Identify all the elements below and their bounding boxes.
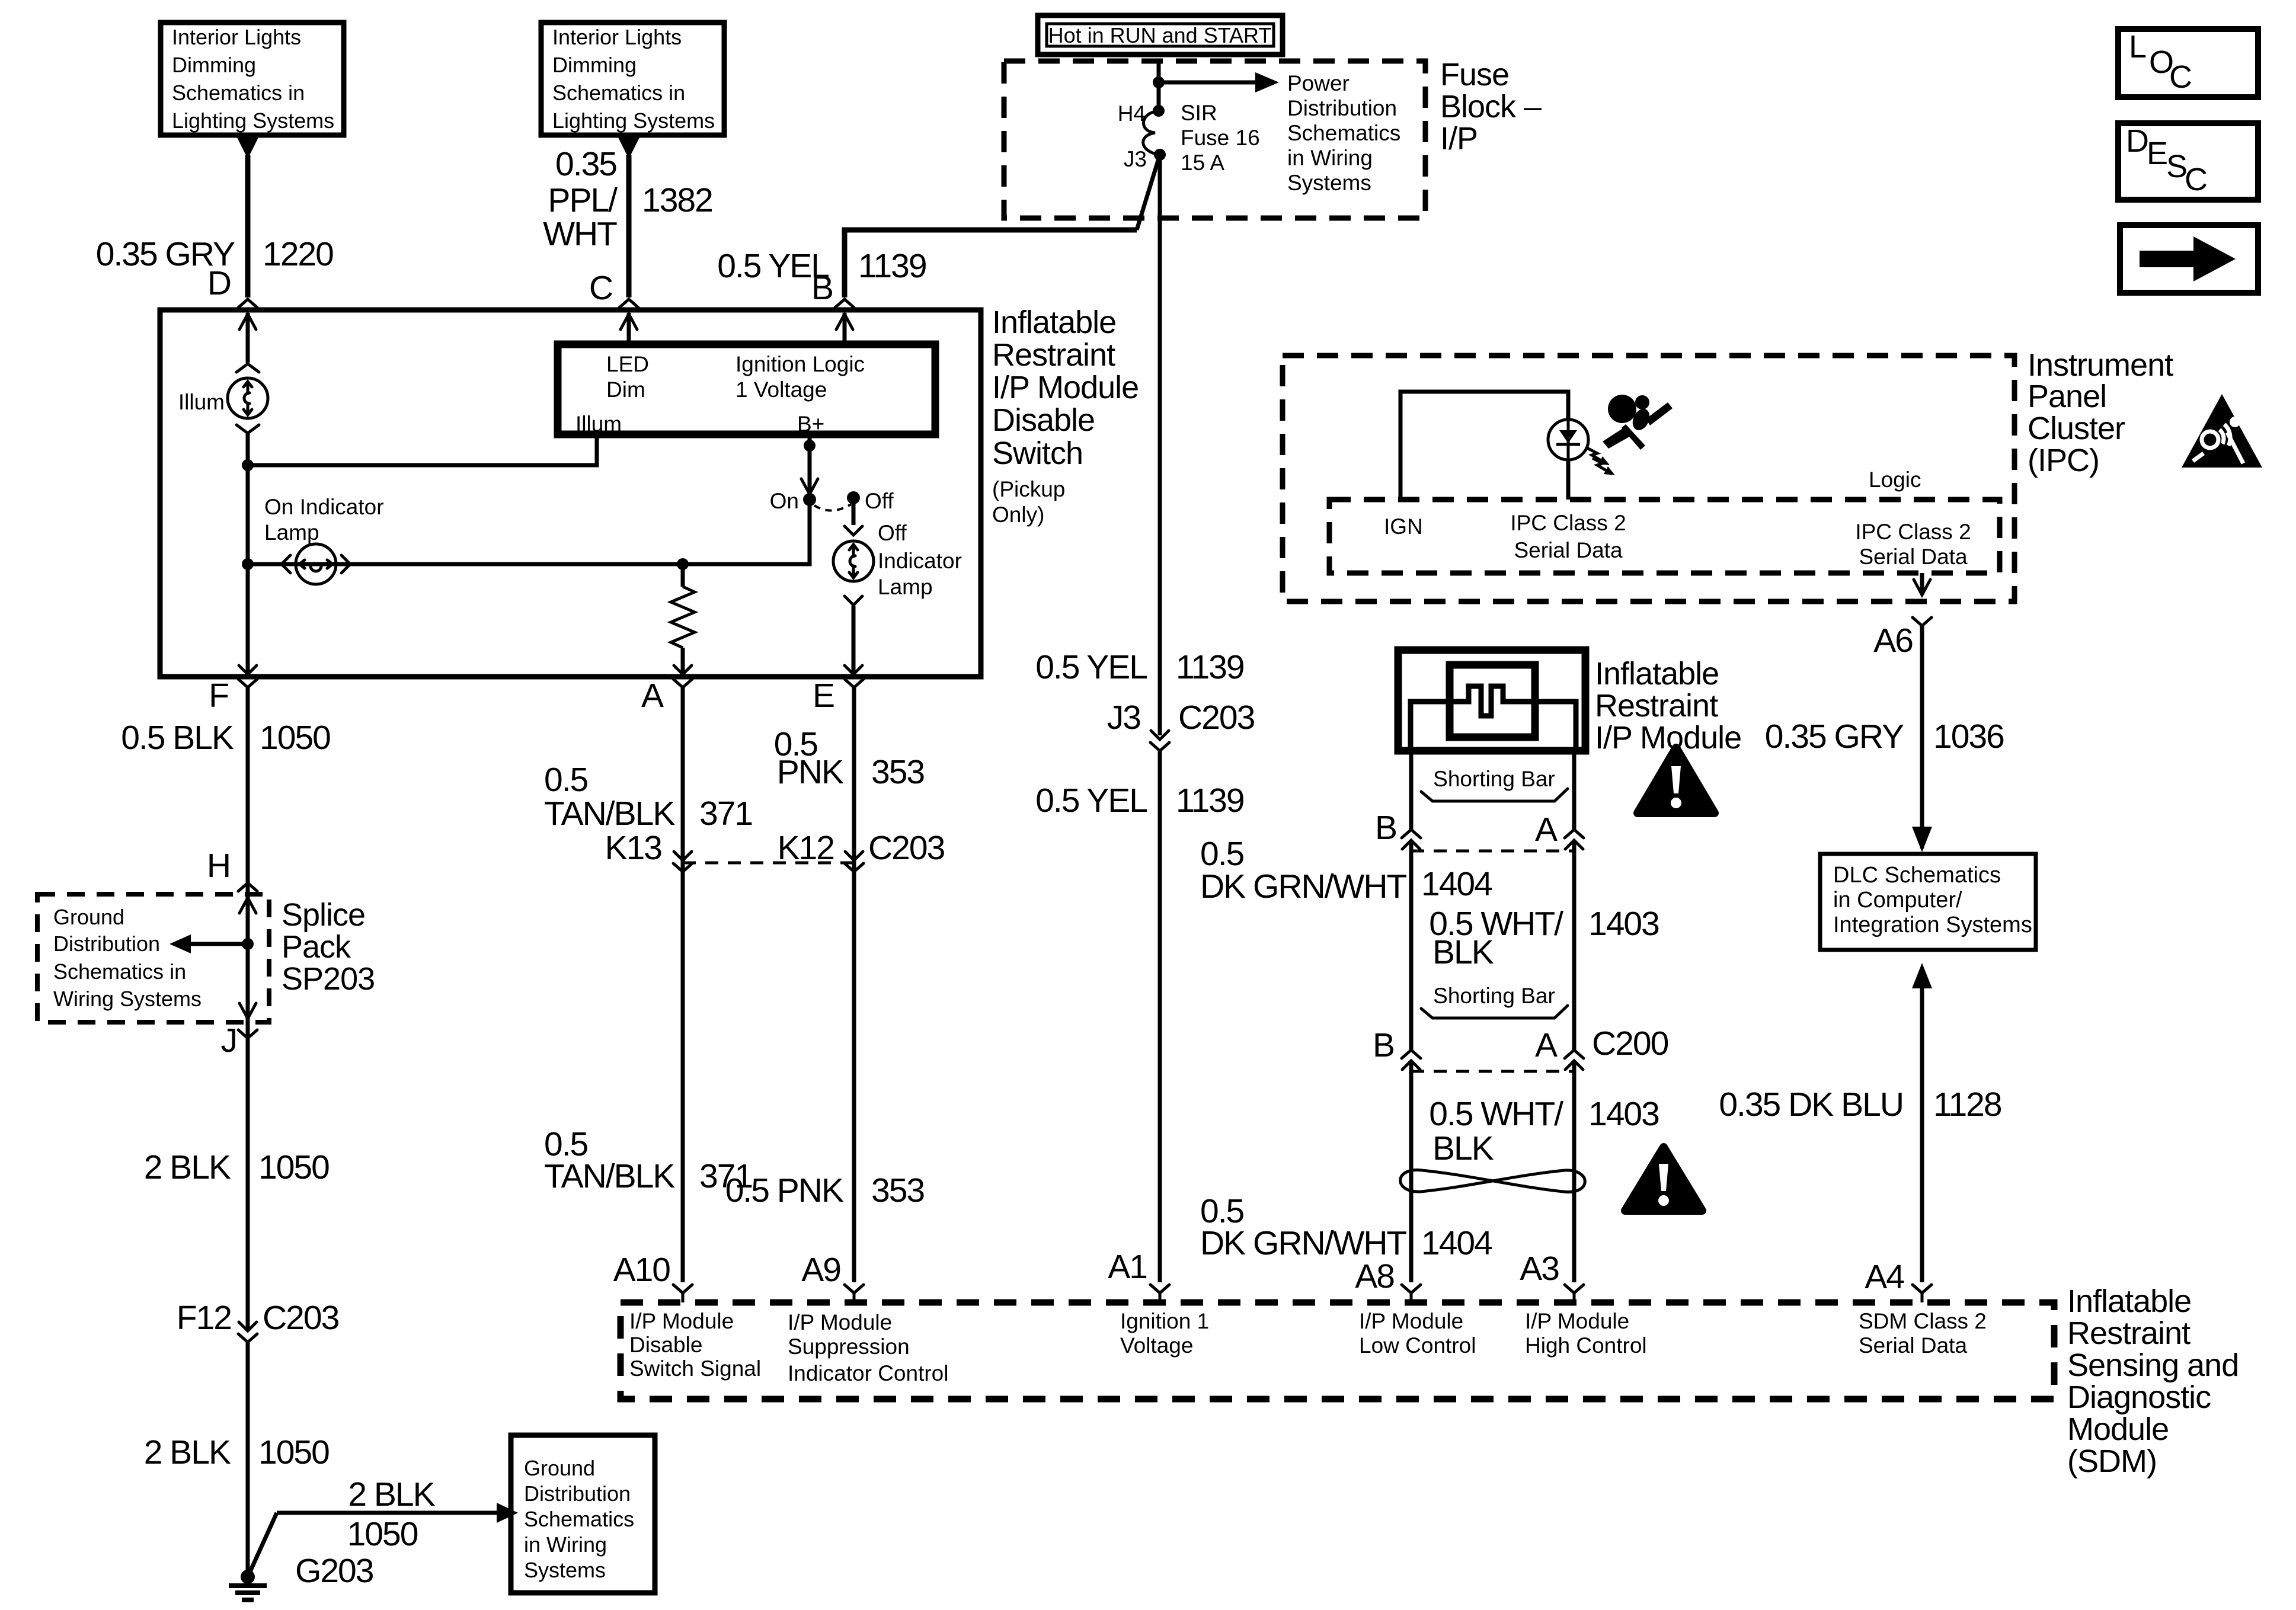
svg-text:Indicator: Indicator <box>878 549 962 573</box>
svg-text:Illum: Illum <box>178 390 225 414</box>
svg-text:Illum: Illum <box>575 412 622 436</box>
svg-text:Lighting Systems: Lighting Systems <box>172 108 334 133</box>
svg-text:Dimming: Dimming <box>552 53 637 77</box>
svg-text:Lamp: Lamp <box>264 520 319 545</box>
svg-text:I/P Module: I/P Module <box>1525 1309 1629 1333</box>
svg-text:DLC Schematics: DLC Schematics <box>1833 863 2001 888</box>
svg-text:0.35 DK BLU: 0.35 DK BLU <box>1719 1086 1903 1124</box>
svg-text:Instrument: Instrument <box>2028 347 2173 383</box>
svg-text:A6: A6 <box>1873 622 1913 660</box>
svg-text:A9: A9 <box>801 1251 840 1289</box>
svg-text:IGN: IGN <box>1384 514 1423 539</box>
svg-text:S: S <box>2166 149 2187 184</box>
svg-text:A10: A10 <box>613 1251 670 1289</box>
svg-text:Fuse 16: Fuse 16 <box>1181 126 1260 150</box>
svg-text:371: 371 <box>699 795 752 833</box>
svg-text:Shorting Bar: Shorting Bar <box>1433 767 1555 791</box>
svg-text:1403: 1403 <box>1588 905 1659 943</box>
svg-text:in Wiring: in Wiring <box>1287 146 1373 170</box>
svg-text:Distribution: Distribution <box>524 1481 631 1506</box>
svg-text:Hot in RUN and START: Hot in RUN and START <box>1048 23 1272 47</box>
svg-text:1050: 1050 <box>260 719 330 757</box>
svg-text:LED: LED <box>606 352 649 376</box>
svg-text:Off: Off <box>878 521 907 545</box>
svg-text:C: C <box>2185 162 2207 197</box>
svg-text:(Pickup: (Pickup <box>992 477 1065 501</box>
svg-text:Ignition 1: Ignition 1 <box>1120 1309 1209 1333</box>
svg-text:1050: 1050 <box>258 1433 329 1471</box>
svg-text:Schematics: Schematics <box>1287 121 1400 145</box>
svg-text:SDM Class 2: SDM Class 2 <box>1859 1309 1987 1333</box>
svg-text:IPC Class 2: IPC Class 2 <box>1510 511 1626 535</box>
svg-text:Lighting Systems: Lighting Systems <box>552 108 715 133</box>
svg-text:D: D <box>207 264 231 302</box>
svg-text:D: D <box>2126 123 2148 159</box>
svg-text:353: 353 <box>871 753 924 791</box>
svg-text:H: H <box>207 847 230 885</box>
svg-text:I/P Module: I/P Module <box>1359 1309 1463 1333</box>
svg-text:K13: K13 <box>605 829 662 867</box>
svg-text:Suppression: Suppression <box>788 1334 910 1359</box>
svg-text:2 BLK: 2 BLK <box>348 1475 435 1513</box>
svg-text:H4: H4 <box>1118 101 1146 126</box>
svg-text:BLK: BLK <box>1432 1129 1494 1167</box>
svg-text:B: B <box>811 269 833 307</box>
svg-text:2 BLK: 2 BLK <box>144 1148 231 1186</box>
svg-text:0.5 BLK: 0.5 BLK <box>121 719 234 757</box>
svg-text:Systems: Systems <box>1287 171 1371 195</box>
svg-text:K12: K12 <box>778 829 834 867</box>
svg-text:1220: 1220 <box>263 235 333 273</box>
svg-text:Interior Lights: Interior Lights <box>172 25 301 49</box>
svg-text:1 Voltage: 1 Voltage <box>736 377 827 402</box>
svg-text:1128: 1128 <box>1933 1086 2001 1124</box>
svg-text:15 A: 15 A <box>1181 151 1224 175</box>
svg-text:E: E <box>813 677 834 715</box>
svg-text:1139: 1139 <box>1176 648 1244 686</box>
svg-text:0.5 YEL: 0.5 YEL <box>1035 648 1147 686</box>
svg-text:I/P Module: I/P Module <box>629 1309 734 1333</box>
svg-text:Splice: Splice <box>282 897 365 933</box>
svg-text:Shorting Bar: Shorting Bar <box>1433 984 1555 1008</box>
svg-text:DK GRN/WHT: DK GRN/WHT <box>1200 868 1406 905</box>
svg-text:Only): Only) <box>992 502 1044 527</box>
svg-text:J: J <box>221 1022 237 1060</box>
svg-text:Wiring Systems: Wiring Systems <box>53 987 202 1011</box>
svg-text:Logic: Logic <box>1869 468 1921 492</box>
svg-text:0.5 YEL: 0.5 YEL <box>1035 782 1147 820</box>
svg-text:Lamp: Lamp <box>878 575 933 599</box>
svg-text:Distribution: Distribution <box>1287 96 1397 120</box>
svg-text:Serial Data: Serial Data <box>1859 545 1967 569</box>
svg-text:Fuse: Fuse <box>1440 57 1509 92</box>
svg-text:Diagnostic: Diagnostic <box>2067 1379 2211 1415</box>
svg-text:1382: 1382 <box>642 181 712 219</box>
svg-text:1139: 1139 <box>858 247 926 285</box>
svg-text:On: On <box>770 489 799 513</box>
svg-text:B: B <box>1373 1026 1394 1064</box>
svg-text:A: A <box>641 677 664 715</box>
svg-text:Module: Module <box>2067 1411 2169 1447</box>
svg-text:F12: F12 <box>177 1299 231 1337</box>
svg-text:C203: C203 <box>1178 699 1255 737</box>
svg-text:Inflatable: Inflatable <box>1595 656 1719 692</box>
svg-text:C: C <box>2169 59 2192 95</box>
svg-text:I/P Module: I/P Module <box>788 1310 892 1334</box>
svg-text:Disable: Disable <box>629 1333 702 1357</box>
svg-text:J3: J3 <box>1107 699 1141 737</box>
svg-text:in Wiring: in Wiring <box>524 1532 607 1557</box>
svg-text:Indicator Control: Indicator Control <box>788 1361 948 1385</box>
svg-text:1403: 1403 <box>1588 1095 1659 1133</box>
svg-text:Switch Signal: Switch Signal <box>629 1356 761 1381</box>
svg-text:Schematics in: Schematics in <box>552 81 685 105</box>
svg-text:(SDM): (SDM) <box>2067 1443 2157 1479</box>
svg-text:Restraint: Restraint <box>1595 688 1718 724</box>
svg-text:Schematics in: Schematics in <box>172 81 305 105</box>
svg-text:E: E <box>2147 136 2167 171</box>
svg-text:Ignition Logic: Ignition Logic <box>736 352 865 376</box>
svg-text:B: B <box>1375 809 1396 847</box>
svg-text:Serial Data: Serial Data <box>1859 1333 1967 1358</box>
svg-text:Restraint: Restraint <box>2067 1315 2191 1351</box>
svg-text:2 BLK: 2 BLK <box>144 1433 231 1471</box>
svg-text:Panel: Panel <box>2028 379 2106 414</box>
svg-text:C200: C200 <box>1592 1025 1668 1062</box>
svg-text:IPC Class 2: IPC Class 2 <box>1855 520 1971 544</box>
svg-text:SIR: SIR <box>1181 101 1217 125</box>
svg-text:I/P: I/P <box>1440 121 1478 156</box>
svg-text:TAN/BLK: TAN/BLK <box>544 795 675 833</box>
svg-text:Integration Systems: Integration Systems <box>1833 913 2032 937</box>
svg-text:Sensing and: Sensing and <box>2067 1347 2239 1383</box>
svg-text:Switch: Switch <box>992 436 1083 471</box>
svg-text:DK GRN/WHT: DK GRN/WHT <box>1200 1224 1406 1262</box>
svg-text:I/P Module: I/P Module <box>1595 720 1741 756</box>
svg-text:A: A <box>1535 811 1558 849</box>
svg-text:Systems: Systems <box>524 1558 606 1582</box>
svg-text:Serial Data: Serial Data <box>1514 538 1622 562</box>
svg-text:TAN/BLK: TAN/BLK <box>544 1157 675 1195</box>
svg-text:Inflatable: Inflatable <box>992 305 1116 340</box>
svg-text:Disable: Disable <box>992 402 1095 438</box>
svg-text:L: L <box>2129 29 2146 65</box>
svg-text:F: F <box>209 677 228 715</box>
svg-text:Dim: Dim <box>606 377 645 402</box>
svg-text:PNK: PNK <box>777 753 844 791</box>
svg-text:J3: J3 <box>1124 147 1147 171</box>
svg-text:Interior Lights: Interior Lights <box>552 25 682 49</box>
svg-text:A3: A3 <box>1520 1250 1559 1288</box>
svg-text:I/P Module: I/P Module <box>992 370 1139 405</box>
svg-text:Voltage: Voltage <box>1120 1333 1193 1358</box>
svg-text:BLK: BLK <box>1432 933 1494 971</box>
svg-text:Block –: Block – <box>1440 89 1542 124</box>
svg-text:1050: 1050 <box>347 1515 418 1553</box>
svg-text:Power: Power <box>1287 71 1350 95</box>
svg-text:Low Control: Low Control <box>1359 1333 1476 1358</box>
svg-text:Ground: Ground <box>524 1456 595 1480</box>
svg-text:Dimming: Dimming <box>172 53 256 77</box>
svg-text:C203: C203 <box>263 1299 339 1337</box>
svg-text:G203: G203 <box>295 1552 373 1590</box>
svg-text:A8: A8 <box>1355 1257 1394 1295</box>
svg-text:A: A <box>1535 1026 1558 1064</box>
svg-text:C203: C203 <box>868 829 945 867</box>
svg-text:C: C <box>589 269 612 307</box>
svg-text:1404: 1404 <box>1421 1224 1492 1262</box>
svg-text:A1: A1 <box>1108 1248 1147 1286</box>
svg-text:High Control: High Control <box>1525 1333 1647 1358</box>
svg-text:WHT: WHT <box>543 215 617 253</box>
svg-text:Inflatable: Inflatable <box>2067 1283 2191 1319</box>
svg-text:Off: Off <box>865 489 894 513</box>
svg-text:0.35: 0.35 <box>555 145 616 183</box>
svg-text:B+: B+ <box>797 412 824 436</box>
svg-text:Schematics in: Schematics in <box>53 959 186 984</box>
svg-text:A4: A4 <box>1865 1258 1904 1296</box>
svg-text:Pack: Pack <box>282 929 351 965</box>
svg-text:1139: 1139 <box>1176 782 1244 820</box>
svg-text:0.5: 0.5 <box>544 761 588 799</box>
svg-text:0.5 WHT/: 0.5 WHT/ <box>1429 1095 1563 1133</box>
svg-text:Ground: Ground <box>53 905 124 929</box>
svg-text:Restraint: Restraint <box>992 337 1115 373</box>
svg-text:353: 353 <box>871 1172 924 1209</box>
svg-text:1036: 1036 <box>1933 718 2004 756</box>
svg-text:PPL/: PPL/ <box>548 181 618 219</box>
svg-text:0.5 PNK: 0.5 PNK <box>725 1172 844 1209</box>
svg-text:SP203: SP203 <box>282 961 375 997</box>
svg-text:On Indicator: On Indicator <box>264 495 384 519</box>
svg-text:(IPC): (IPC) <box>2028 443 2099 478</box>
svg-text:Distribution: Distribution <box>53 932 160 956</box>
svg-text:in Computer/: in Computer/ <box>1833 888 1962 913</box>
svg-text:Cluster: Cluster <box>2028 411 2125 446</box>
svg-text:0.35 GRY: 0.35 GRY <box>1765 718 1904 756</box>
svg-text:1050: 1050 <box>258 1148 329 1186</box>
svg-text:Schematics: Schematics <box>524 1507 634 1531</box>
svg-text:1404: 1404 <box>1421 865 1492 903</box>
